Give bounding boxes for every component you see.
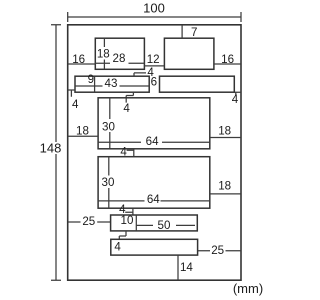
svg-text:25: 25 — [82, 215, 95, 228]
label rect 50x10 — [111, 215, 198, 231]
dim line 18 right row3 — [210, 137, 241, 139]
svg-text:100: 100 — [143, 1, 165, 16]
svg-text:64: 64 — [147, 193, 160, 206]
svg-text:18: 18 — [218, 179, 231, 192]
svg-text:10: 10 — [121, 214, 134, 227]
svg-text:12: 12 — [147, 53, 160, 66]
label rect row3 64x30 — [98, 98, 210, 149]
svg-text:4: 4 — [123, 102, 130, 115]
dim line 64 row3 — [98, 141, 210, 143]
svg-text:4: 4 — [72, 98, 79, 111]
svg-text:25: 25 — [211, 244, 224, 257]
dim line 43 (row2 width) — [75, 85, 149, 87]
svg-text:28: 28 — [113, 52, 126, 65]
label rect row2 left 43x9 — [75, 76, 149, 92]
height dimension line 148 — [51, 25, 61, 280]
svg-text:50: 50 — [158, 219, 171, 232]
dim line 16 right — [214, 63, 241, 65]
dim line 16 left — [68, 63, 96, 65]
svg-text:64: 64 — [146, 135, 159, 148]
leader 4 right margin row2 — [234, 92, 241, 95]
dim line 18 right row4 — [210, 193, 241, 195]
svg-text:18: 18 — [97, 47, 110, 60]
dim line 18 (row1 height) — [103, 38, 105, 69]
svg-text:9: 9 — [88, 73, 94, 86]
svg-text:6: 6 — [151, 75, 157, 88]
dim line 25 left — [68, 221, 111, 223]
leader 7 (top margin) — [181, 25, 183, 38]
dim line 30 (row3 height) — [109, 98, 111, 149]
label rect row1 right 28x18 — [164, 38, 214, 69]
label rect bottom 50x9 — [111, 239, 198, 255]
leader 4 gap row2-row3 — [126, 92, 133, 102]
label 148 — [39, 142, 62, 154]
paper outline 100x148 — [68, 25, 241, 280]
svg-text:30: 30 — [102, 176, 115, 189]
svg-text:14: 14 — [180, 261, 193, 274]
label rect row1 left 28x18 — [95, 38, 144, 69]
leader 4 gap row4-row5 — [125, 208, 133, 215]
dim line 25 right — [198, 250, 241, 252]
svg-text:16: 16 — [72, 53, 85, 66]
leader 4 step rect7-rect8 — [119, 231, 126, 239]
dim line 12 (gap row1) — [144, 65, 164, 67]
dim line 10 — [135, 215, 137, 231]
svg-text:43: 43 — [105, 77, 118, 90]
svg-text:(mm): (mm) — [233, 281, 263, 296]
label rect row2 right 43x9 — [160, 76, 235, 92]
label rect row4 64x30 — [98, 157, 210, 209]
svg-text:4: 4 — [114, 241, 121, 254]
leader 4 gap row1-row2 — [134, 73, 146, 76]
leader 14 (bottom margin) — [177, 255, 179, 280]
dim line 18 left row3 — [68, 135, 98, 137]
leader 4 left margin row2 — [68, 90, 75, 97]
svg-text:4: 4 — [232, 93, 239, 106]
svg-text:16: 16 — [221, 53, 234, 66]
dim line 64 row4 — [98, 200, 210, 202]
svg-text:18: 18 — [76, 125, 89, 138]
svg-text:18: 18 — [218, 125, 231, 138]
dim line 30 (row4 height) — [108, 157, 110, 209]
svg-text:148: 148 — [40, 141, 62, 156]
dim line 28 (row1 width) — [95, 62, 144, 64]
dim line 50 — [136, 224, 195, 226]
svg-text:30: 30 — [102, 120, 115, 133]
dim line 9 (row2 height) — [94, 76, 96, 92]
svg-text:7: 7 — [191, 26, 197, 39]
width dimension line 100 — [68, 12, 241, 22]
leader 4 gap row3-row4 — [127, 149, 134, 157]
